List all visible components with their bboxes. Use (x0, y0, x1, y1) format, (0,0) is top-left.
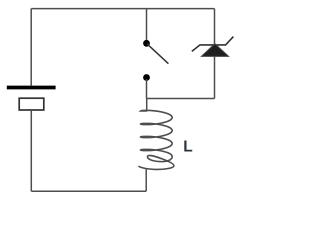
zener diode D1 triangle (201, 44, 228, 57)
battery B1 plate long (7, 86, 56, 90)
wire switch branch top (146, 9, 148, 40)
wire top (31, 8, 214, 10)
wire middle horizontal (147, 98, 215, 100)
wire junction to coil (146, 99, 148, 112)
wire right branch lower (214, 56, 216, 98)
battery B1 plate box (19, 98, 44, 110)
zener diode D1 cathode bar (192, 37, 234, 52)
inductor L coil (138, 110, 174, 169)
wire left branch lower (30, 110, 32, 191)
wire coil to bottom (145, 169, 147, 191)
switch S1 contact upper (143, 40, 150, 47)
wire left branch upper (30, 9, 32, 86)
wire bottom (31, 190, 146, 192)
wire switch to junction (146, 79, 148, 99)
switch S1 contact lower (143, 74, 150, 81)
switch S1 blade (147, 44, 168, 64)
svg-text:L: L (183, 139, 192, 156)
wire right branch upper (214, 9, 216, 44)
